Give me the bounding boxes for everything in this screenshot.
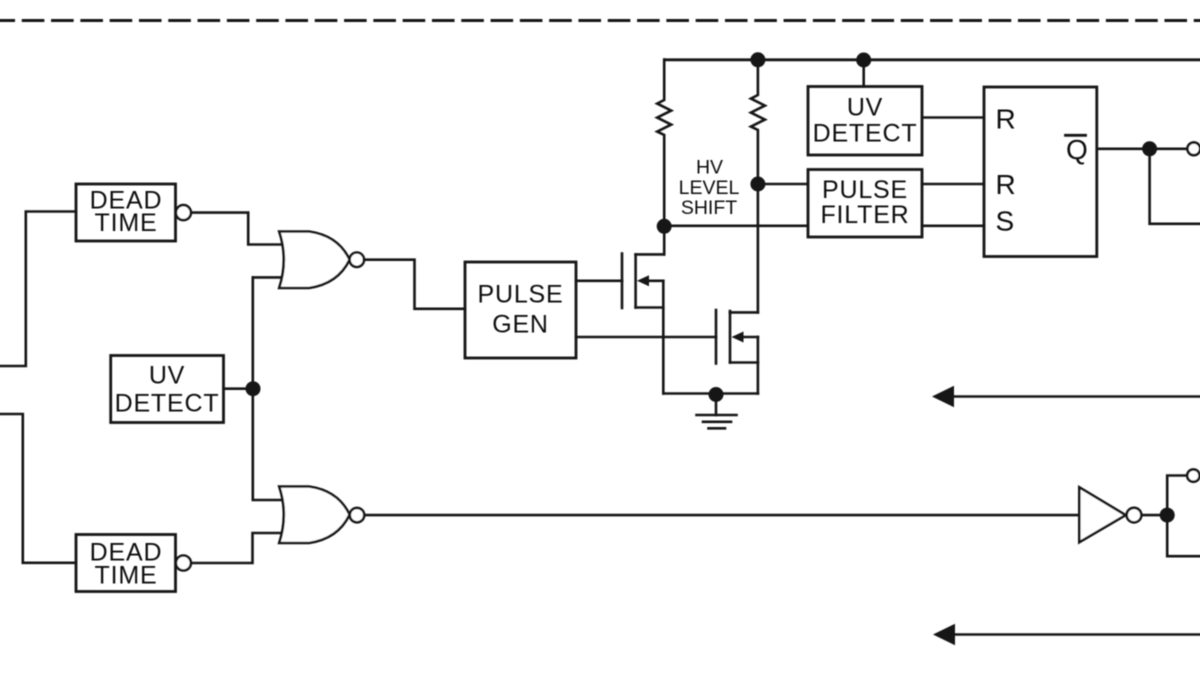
wire: COM rail between M1 and M2 sources	[663, 392, 758, 395]
M2 body arrow	[732, 332, 744, 343]
resistor R2 (level shift, right)	[751, 60, 765, 184]
svg-text:TIME: TIME	[95, 209, 158, 237]
svg-text:UV: UV	[847, 94, 883, 122]
UV detect block U2 (high side)	[808, 87, 922, 156]
node: Q-bar output junction dot	[1142, 141, 1157, 156]
dead-time block 1 (DEAD TIME)	[76, 184, 176, 241]
M2 drain stub	[730, 311, 758, 314]
svg-text:TIME: TIME	[95, 561, 158, 589]
NOR gate G2	[279, 487, 349, 544]
wire: PULSE FILTER output to latch R input 2	[922, 183, 984, 186]
wire: RESET line from M2 drain junction to PULSE FILTER	[758, 183, 808, 186]
wire: junction down and out to right edge	[1167, 515, 1200, 556]
wire: M1 source down to COM rail	[662, 281, 665, 394]
wire: DEAD TIME 2 output to NOR gate G2 bottom input	[191, 533, 284, 563]
transistor M1 (level-shift NMOS, upper)	[621, 254, 624, 309]
node: ground junction dot	[709, 387, 724, 402]
svg-text:FILTER: FILTER	[820, 201, 909, 229]
node: VB rail / R2 junction dot	[750, 52, 765, 67]
svg-text:PULSE: PULSE	[822, 176, 908, 204]
inverting bubble at DEAD TIME 1 output	[176, 205, 191, 220]
node: VB rail / UV detect U2 junction dot	[856, 53, 871, 68]
wire: NOR G2 output line to inverter	[364, 514, 1079, 517]
wire: left input 2 entering at left edge	[0, 414, 76, 563]
wire: PULSE GEN output 1 to M1 gate	[576, 279, 622, 282]
arrow: feedback line to LO (lower)	[952, 633, 1200, 636]
svg-text:R: R	[996, 169, 1016, 200]
pulse generator block (PULSE GEN)	[465, 262, 576, 358]
resistor R1 (level shift, left)	[657, 60, 671, 227]
wire: junction up to LO pin bubble	[1167, 476, 1187, 516]
wire: inverter output to junction	[1141, 514, 1167, 517]
svg-text:DETECT: DETECT	[813, 120, 918, 148]
svg-text:DETECT: DETECT	[115, 390, 220, 418]
node: UV detect junction dot	[246, 381, 261, 396]
inverting bubble at NOR G1 output	[350, 253, 364, 267]
wire: UV detect U1 output to junction	[224, 387, 253, 390]
pin bubble at right edge (HO driver input)	[1187, 142, 1200, 155]
svg-text:PULSE: PULSE	[478, 281, 564, 309]
wire: vertical net joining NOR G1 lower input, UV junction, NOR G2 upper input	[253, 277, 284, 500]
pin bubble (LO driver, upper)	[1187, 469, 1199, 481]
transistor M2 (level-shift NMOS, lower)	[715, 310, 718, 364]
wire: Q-bar junction down and out to right edge	[1150, 149, 1200, 224]
pulse filter block (PULSE FILTER)	[808, 170, 922, 238]
wire: left input 1 entering at left edge	[0, 212, 76, 367]
IC boundary dashed border (top edge)	[0, 19, 1200, 22]
wire: SET line from M1 drain junction to PULSE FILTER	[664, 225, 807, 228]
M1 source stub	[636, 306, 664, 309]
wire: VB rail down to UV detect U2	[862, 60, 865, 87]
wire: R1 bottom to M1 drain	[663, 227, 666, 255]
wire: NOR G1 output to PULSE GEN input	[364, 260, 465, 309]
M1 drain stub	[636, 253, 665, 256]
inverting bubble at NOR G2 output	[350, 508, 364, 522]
node: M2 drain / RESET line junction dot	[750, 177, 765, 192]
inverting bubble at inverter U4 output	[1127, 508, 1142, 523]
svg-text:S: S	[996, 206, 1015, 237]
RS latch U3	[984, 87, 1097, 257]
UV detect block U1 (low side)	[111, 356, 224, 423]
svg-text:SHIFT: SHIFT	[681, 197, 737, 219]
wire: latch Q-bar output	[1097, 148, 1188, 151]
svg-text:LEVEL: LEVEL	[679, 177, 740, 199]
svg-text:HV: HV	[696, 157, 723, 179]
node: M1 drain / SET line junction dot	[657, 219, 672, 234]
node: inverter output junction dot	[1160, 508, 1175, 523]
wire: M2 source down to COM rail	[757, 337, 760, 394]
arrow: feedback line to HO (upper)	[951, 395, 1200, 398]
dead-time block 2 (DEAD TIME)	[76, 535, 176, 592]
svg-text:Q: Q	[1066, 134, 1088, 165]
wire: PULSE GEN output 2 to M2 gate	[576, 336, 716, 339]
inverter U4	[1079, 487, 1125, 542]
wire: VB top rail	[665, 58, 1200, 61]
wire: UV detect U2 output to latch R input 1	[922, 116, 984, 119]
svg-text:GEN: GEN	[492, 311, 549, 339]
wire: DEAD TIME 1 output to NOR gate G1 top input	[191, 213, 284, 245]
wire: PULSE FILTER output to latch S input	[922, 225, 984, 228]
svg-text:UV: UV	[149, 362, 185, 390]
NOR gate G1	[279, 232, 349, 289]
M1 body arrow	[637, 275, 649, 286]
inverting bubble at DEAD TIME 2 output	[176, 556, 191, 571]
M2 source stub	[730, 361, 758, 364]
wire: R2 bottom to M2 drain	[757, 184, 760, 313]
ground	[715, 395, 718, 416]
svg-text:R: R	[996, 103, 1016, 134]
